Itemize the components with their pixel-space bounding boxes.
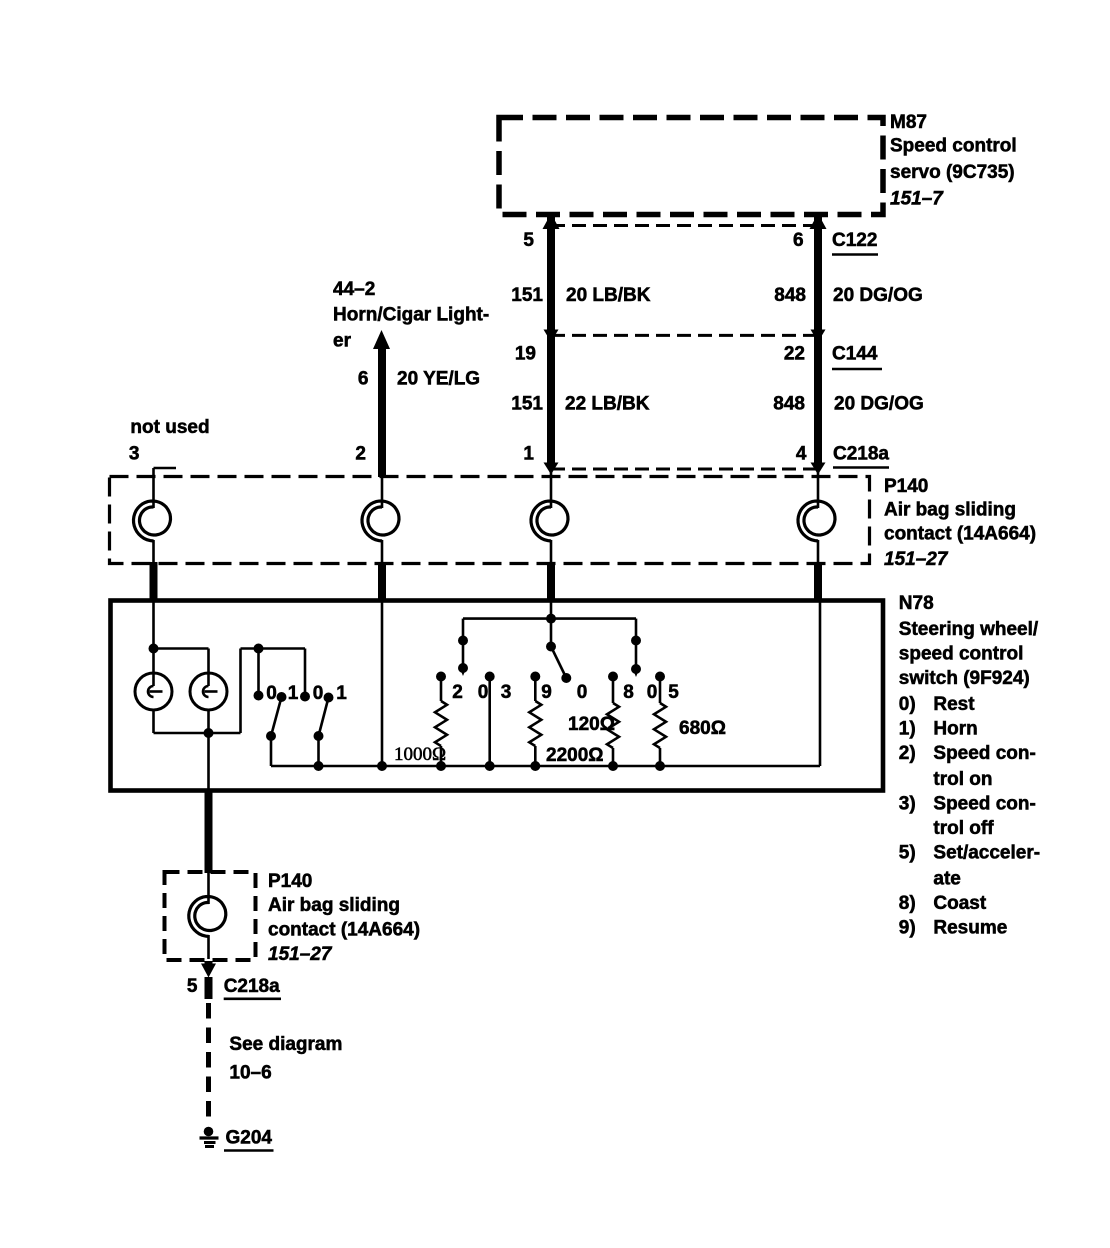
svg-text:2): 2)	[899, 743, 916, 764]
svg-text:contact (14A664): contact (14A664)	[268, 920, 420, 941]
svg-text:680Ω: 680Ω	[679, 718, 726, 739]
svg-text:0: 0	[313, 683, 324, 704]
svg-text:44–2: 44–2	[333, 279, 375, 300]
svg-text:Set/acceler-: Set/acceler-	[933, 843, 1040, 864]
svg-text:Air bag sliding: Air bag sliding	[884, 500, 1016, 521]
svg-text:2200Ω: 2200Ω	[546, 745, 604, 766]
svg-text:ate: ate	[933, 869, 960, 890]
svg-text:N78: N78	[899, 593, 934, 614]
svg-text:0: 0	[478, 682, 489, 703]
svg-text:Rest: Rest	[933, 694, 975, 715]
svg-text:C218a: C218a	[833, 444, 889, 465]
svg-text:6: 6	[793, 230, 804, 251]
svg-text:19: 19	[515, 344, 536, 365]
svg-text:10–6: 10–6	[229, 1063, 271, 1084]
svg-text:5: 5	[187, 976, 198, 997]
svg-text:848: 848	[774, 285, 806, 306]
svg-text:P140: P140	[884, 476, 928, 497]
svg-text:5): 5)	[899, 843, 916, 864]
svg-text:8): 8)	[899, 893, 916, 914]
svg-text:3: 3	[129, 444, 140, 465]
svg-text:3: 3	[501, 682, 512, 703]
svg-text:er: er	[333, 331, 352, 352]
svg-text:trol off: trol off	[933, 818, 994, 839]
svg-text:5: 5	[668, 682, 679, 703]
svg-text:C122: C122	[832, 230, 877, 251]
svg-text:151: 151	[511, 394, 543, 415]
svg-text:1000Ω: 1000Ω	[394, 744, 446, 765]
svg-text:151–27: 151–27	[884, 549, 949, 570]
svg-text:M87: M87	[890, 112, 927, 133]
svg-text:0): 0)	[899, 694, 916, 715]
svg-text:Speed con-: Speed con-	[933, 793, 1035, 814]
svg-text:Resume: Resume	[933, 918, 1007, 939]
svg-text:contact (14A664): contact (14A664)	[884, 524, 1036, 545]
svg-text:3): 3)	[899, 793, 916, 814]
svg-text:22: 22	[784, 344, 805, 365]
svg-text:8: 8	[623, 682, 634, 703]
svg-text:5: 5	[523, 230, 534, 251]
svg-text:0: 0	[577, 682, 588, 703]
svg-text:1: 1	[336, 683, 347, 704]
svg-text:151–27: 151–27	[268, 944, 333, 965]
svg-text:Coast: Coast	[933, 893, 986, 914]
svg-text:speed control: speed control	[899, 643, 1024, 664]
svg-text:G204: G204	[226, 1128, 273, 1149]
svg-text:switch (9F924): switch (9F924)	[899, 668, 1030, 689]
svg-text:P140: P140	[268, 871, 312, 892]
svg-text:2: 2	[452, 682, 463, 703]
svg-text:C218a: C218a	[224, 976, 280, 997]
svg-text:20 LB/BK: 20 LB/BK	[566, 285, 651, 306]
svg-text:1: 1	[288, 683, 299, 704]
svg-text:C144: C144	[832, 344, 878, 365]
svg-text:9: 9	[541, 682, 552, 703]
svg-text:Speed con-: Speed con-	[933, 743, 1035, 764]
svg-text:22 LB/BK: 22 LB/BK	[565, 394, 650, 415]
svg-text:151–7: 151–7	[890, 189, 944, 210]
svg-text:1: 1	[523, 444, 534, 465]
svg-text:1): 1)	[899, 718, 916, 739]
svg-text:Horn: Horn	[933, 718, 977, 739]
svg-text:Steering wheel/: Steering wheel/	[899, 619, 1039, 640]
svg-text:Horn/Cigar Light-: Horn/Cigar Light-	[333, 305, 489, 326]
svg-text:trol on: trol on	[933, 769, 992, 790]
svg-text:151: 151	[511, 285, 543, 306]
svg-text:servo (9C735): servo (9C735)	[890, 162, 1015, 183]
svg-text:120Ω: 120Ω	[568, 714, 615, 735]
svg-text:0: 0	[647, 682, 658, 703]
svg-text:6: 6	[358, 369, 369, 390]
svg-text:See diagram: See diagram	[229, 1034, 342, 1055]
svg-text:4: 4	[796, 444, 807, 465]
svg-text:20 YE/LG: 20 YE/LG	[397, 369, 480, 390]
svg-text:Air bag sliding: Air bag sliding	[268, 895, 400, 916]
svg-text:not used: not used	[130, 417, 209, 438]
svg-text:9): 9)	[899, 918, 916, 939]
svg-text:20 DG/OG: 20 DG/OG	[833, 285, 923, 306]
svg-text:2: 2	[355, 444, 366, 465]
svg-text:0: 0	[266, 683, 277, 704]
svg-text:Speed control: Speed control	[890, 136, 1017, 157]
svg-text:20 DG/OG: 20 DG/OG	[834, 394, 924, 415]
svg-text:848: 848	[773, 394, 805, 415]
